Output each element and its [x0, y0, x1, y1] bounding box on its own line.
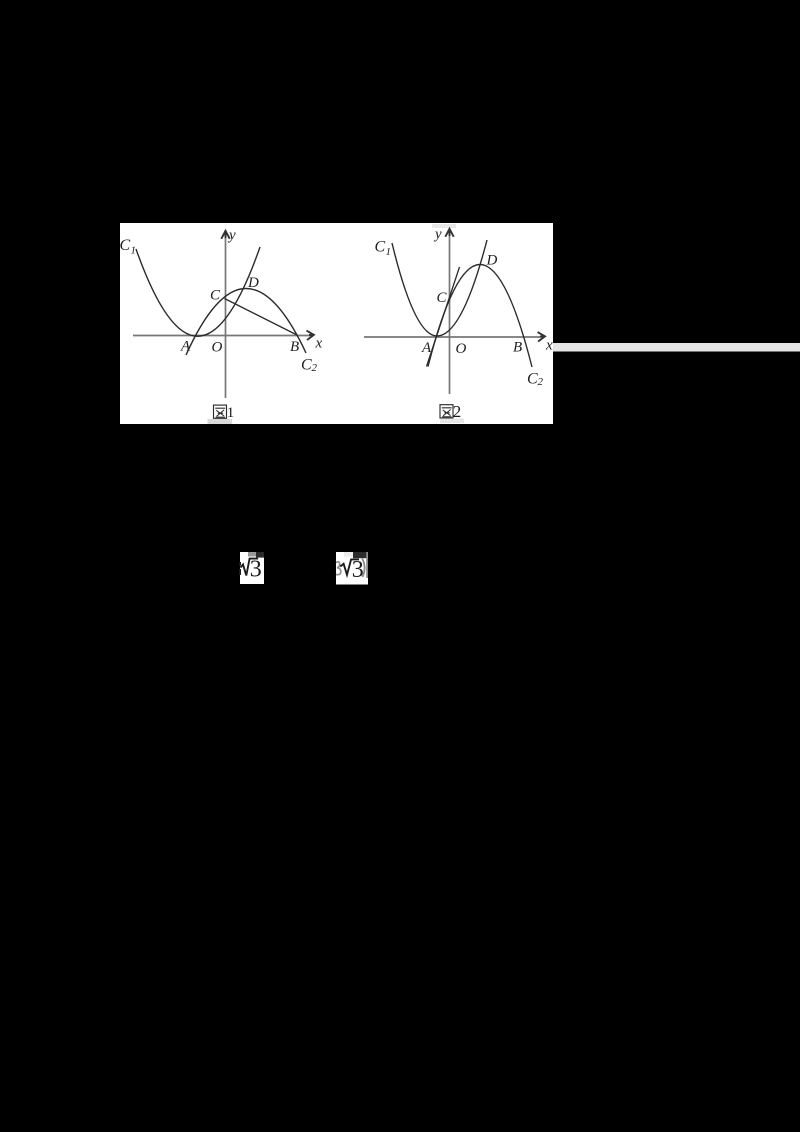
caption glyph tu fig1 [214, 405, 227, 418]
svg-text:A: A [180, 339, 191, 355]
svg-text:O: O [212, 340, 223, 356]
segment CB fig1 [225, 299, 299, 336]
svg-text:2: 2 [312, 362, 318, 374]
x-axis fig1 [133, 335, 312, 337]
svg-text:D: D [247, 275, 259, 291]
svg-text:x: x [545, 338, 553, 354]
svg-text:2: 2 [538, 376, 544, 388]
y-axis arrowhead fig2 [445, 229, 453, 237]
y-axis arrowhead fig1 [221, 231, 229, 239]
svg-text:C: C [527, 371, 538, 388]
clipped marks left edge patch1 [239, 562, 241, 566]
svg-text:A: A [421, 340, 432, 356]
svg-text:1: 1 [386, 246, 392, 258]
radical sign patch1 [241, 559, 259, 576]
svg-text:D: D [486, 253, 498, 269]
parabola C2 fig2 (through A, peak, through B) [428, 265, 532, 368]
svg-text:y: y [227, 228, 236, 244]
y-axis fig2 [449, 230, 451, 394]
svg-text:B: B [513, 340, 522, 356]
radical sign patch2 [340, 559, 359, 574]
parabola C1 fig1 (vertex at A on x-axis) [136, 247, 260, 336]
gray smudge under caption 2 [440, 419, 464, 424]
svg-text:3: 3 [250, 557, 262, 583]
clipped digit 3 left edge patch2 [336, 562, 341, 575]
svg-text:C: C [437, 290, 448, 306]
svg-text:C: C [120, 237, 131, 254]
svg-text:2: 2 [453, 402, 462, 421]
svg-text:C: C [375, 239, 386, 256]
white figure box [120, 223, 553, 424]
svg-text:1: 1 [227, 405, 235, 421]
svg-text:x: x [315, 336, 323, 352]
x-axis arrowhead fig2 [538, 332, 545, 341]
parabola C1 fig2 (vertex at A on x-axis) [392, 240, 487, 336]
svg-text:3: 3 [352, 557, 364, 583]
caption glyph tu fig2 [440, 405, 453, 418]
y-axis fig1 [225, 232, 227, 398]
clipped paren right edge patch2 [362, 559, 364, 578]
parabola C2 fig1 (through A, peak near D, through B) [186, 289, 306, 356]
x-axis fig2 [364, 336, 543, 338]
svg-text:C: C [210, 288, 221, 304]
svg-text:1: 1 [131, 245, 137, 257]
gray smudge under caption 1 [208, 419, 233, 424]
svg-text:y: y [433, 227, 442, 243]
line through A and C fig2 [427, 267, 460, 367]
svg-text:O: O [456, 341, 467, 357]
svg-text:B: B [290, 339, 299, 355]
gray bar near fig2 y-axis top [432, 224, 456, 228]
x-axis arrowhead fig1 [307, 331, 314, 340]
svg-text:C: C [301, 357, 312, 374]
gray highlight strip right of box [553, 343, 800, 352]
